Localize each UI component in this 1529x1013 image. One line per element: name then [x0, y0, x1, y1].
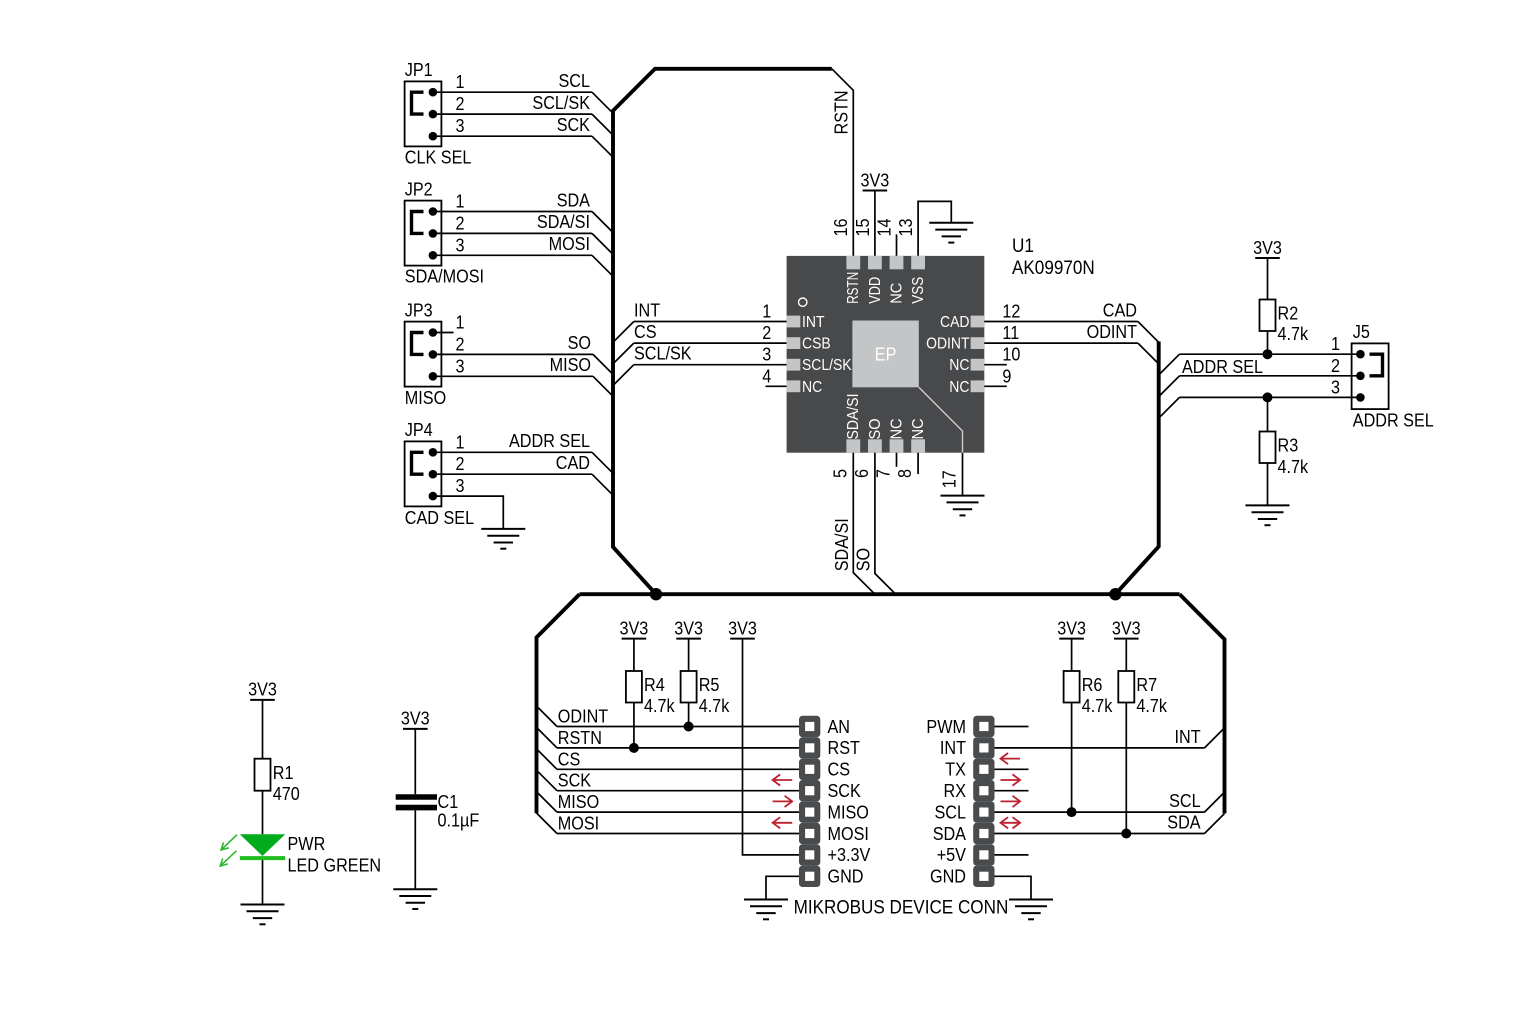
svg-text:3V3: 3V3: [248, 680, 277, 700]
svg-text:0.1µF: 0.1µF: [438, 810, 480, 830]
ground right header: [1009, 900, 1053, 920]
svg-text:9: 9: [1002, 366, 1011, 386]
svg-text:VDD: VDD: [867, 277, 884, 304]
svg-text:3: 3: [456, 116, 465, 136]
svg-text:3V3: 3V3: [674, 618, 703, 638]
U1 pin1 marker circle: [799, 298, 807, 306]
wire RSTN (top bus to U1 pin16): [832, 69, 854, 256]
ground C1: [393, 889, 437, 909]
node R2 junction: [1263, 349, 1273, 359]
wire CS row (bus to header CS): [537, 749, 558, 770]
wire ODINT (U1 pin11 to right bus): [984, 342, 1138, 344]
svg-text:+5V: +5V: [937, 845, 966, 865]
connector J5: [1352, 343, 1389, 409]
connector JP2: [405, 201, 442, 266]
svg-text:SO: SO: [867, 419, 884, 440]
svg-text:MOSI: MOSI: [828, 824, 869, 844]
svg-text:2: 2: [456, 334, 465, 354]
svg-text:SCK: SCK: [828, 781, 861, 801]
svg-text:R5: R5: [699, 675, 720, 695]
svg-text:4.7k: 4.7k: [1082, 696, 1113, 716]
svg-text:CSB: CSB: [802, 336, 831, 353]
svg-text:SCL/SK: SCL/SK: [532, 93, 590, 113]
wire JP1 pin3 SCK: [433, 135, 592, 137]
svg-text:VSS: VSS: [910, 277, 927, 304]
svg-text:3V3: 3V3: [1112, 618, 1141, 638]
svg-text:15: 15: [853, 219, 873, 237]
connector JP1: [405, 81, 442, 146]
wire ADDR SEL row1 (bus to J5 pin1): [1159, 354, 1180, 375]
svg-text:3V3: 3V3: [1057, 618, 1086, 638]
svg-text:CS: CS: [828, 760, 851, 780]
svg-text:NC: NC: [949, 379, 969, 396]
wire PWM stub: [995, 726, 1029, 728]
svg-text:16: 16: [831, 219, 851, 237]
red arrows right header: [1001, 753, 1021, 828]
ground pin17: [941, 496, 985, 516]
svg-text:SCL/SK: SCL/SK: [634, 344, 692, 364]
resistor R7: [1118, 671, 1134, 703]
svg-text:ODINT: ODINT: [926, 336, 970, 353]
svg-text:J5: J5: [1353, 322, 1370, 342]
resistor R2: [1260, 300, 1276, 332]
wire ADDR SEL row3 (bus to J5 pin3): [1159, 397, 1180, 418]
U1 EP pad: [852, 321, 918, 388]
svg-text:INT: INT: [940, 738, 966, 758]
wire JP3 pin3 MISO: [433, 375, 593, 377]
svg-text:SCL: SCL: [1169, 791, 1201, 811]
red arrow left SCK in: [773, 774, 793, 828]
svg-text:2: 2: [456, 94, 465, 114]
svg-text:MOSI: MOSI: [549, 234, 590, 254]
svg-text:NC: NC: [949, 357, 969, 374]
svg-text:3V3: 3V3: [861, 170, 890, 190]
svg-text:SO: SO: [854, 548, 874, 571]
svg-text:6: 6: [852, 469, 872, 478]
LED D1 PWR green: [240, 834, 285, 856]
wire U1 pin4 NC stub: [766, 385, 787, 387]
svg-text:AN: AN: [828, 717, 851, 737]
svg-text:2: 2: [762, 323, 771, 343]
svg-text:CAD SEL: CAD SEL: [405, 508, 474, 528]
connector JP3: [405, 322, 442, 387]
svg-text:GND: GND: [930, 867, 966, 887]
svg-text:R6: R6: [1082, 675, 1103, 695]
wire SCL/SK (bus to U1 pin3): [613, 365, 634, 386]
resistor R5: [681, 671, 697, 703]
svg-text:MIKROBUS DEVICE CONN: MIKROBUS DEVICE CONN: [794, 898, 1009, 919]
svg-text:1: 1: [456, 72, 465, 92]
svg-text:1: 1: [1331, 334, 1340, 354]
wire TX stub: [995, 768, 1029, 770]
svg-text:+3.3V: +3.3V: [828, 845, 871, 865]
svg-text:ADDR SEL: ADDR SEL: [1182, 357, 1263, 377]
svg-text:SCK: SCK: [557, 115, 590, 135]
svg-text:CAD: CAD: [940, 314, 970, 331]
node junction dot left: [650, 588, 662, 600]
svg-text:ADDR SEL: ADDR SEL: [509, 431, 590, 451]
svg-text:RSTN: RSTN: [832, 90, 852, 134]
node R7 junction on SDA row: [1121, 829, 1131, 839]
svg-text:RX: RX: [944, 781, 967, 801]
wire JP1 pin2 SCL/SK: [433, 113, 592, 115]
svg-text:CAD: CAD: [1103, 301, 1137, 321]
wire lower octagon top edge: [580, 592, 1180, 596]
ground left header: [744, 900, 788, 920]
svg-text:10: 10: [1002, 345, 1020, 365]
resistor R6: [1064, 671, 1080, 703]
wire INT (bus to U1 pin1): [613, 322, 634, 343]
svg-text:CLK SEL: CLK SEL: [405, 148, 472, 168]
svg-text:SDA: SDA: [933, 824, 966, 844]
wire U1 pin8 NC stub: [917, 453, 919, 474]
ground VSS: [929, 223, 973, 243]
svg-text:13: 13: [896, 219, 916, 237]
wire bus upper-left thick outline: [613, 69, 832, 594]
svg-text:INT: INT: [634, 301, 660, 321]
svg-text:PWM: PWM: [926, 717, 966, 737]
svg-text:SCL/SK: SCL/SK: [802, 357, 852, 374]
wire SDA row (header to right bus): [995, 833, 1205, 835]
connector left mikrobus header: [799, 716, 820, 887]
wire lower octagon right side: [1180, 594, 1225, 813]
svg-text:SDA/MOSI: SDA/MOSI: [405, 267, 484, 287]
svg-text:11: 11: [1002, 323, 1019, 343]
connector right mikrobus header: [973, 716, 994, 887]
ground LED: [241, 905, 285, 925]
svg-text:4.7k: 4.7k: [699, 696, 730, 716]
svg-text:RST: RST: [828, 738, 860, 758]
svg-text:MISO: MISO: [558, 792, 599, 812]
wire U1 pin14 NC stub: [896, 234, 898, 256]
wire EP pin17 to ground: [919, 387, 963, 452]
svg-text:JP1: JP1: [405, 60, 433, 80]
ground JP4: [481, 529, 525, 549]
svg-text:NC: NC: [888, 419, 905, 440]
svg-text:MISO: MISO: [828, 802, 869, 822]
svg-text:SCL: SCL: [559, 71, 591, 91]
svg-text:PWR: PWR: [288, 834, 326, 854]
svg-text:470: 470: [273, 784, 300, 804]
node R4 junction on RSTN row: [629, 743, 639, 753]
wire CAD (U1 pin12 to right bus): [984, 321, 1138, 323]
wire U1 pin9 NC stub: [984, 385, 1007, 387]
svg-text:CS: CS: [634, 322, 657, 342]
svg-text:2: 2: [456, 213, 465, 233]
svg-text:4.7k: 4.7k: [1278, 324, 1309, 344]
svg-text:4: 4: [762, 366, 771, 386]
svg-text:8: 8: [895, 469, 915, 478]
svg-text:3V3: 3V3: [401, 709, 430, 729]
wire RSTN row (bus to header RST): [537, 727, 558, 748]
svg-text:1: 1: [456, 192, 465, 212]
svg-text:MOSI: MOSI: [558, 814, 599, 834]
svg-text:R3: R3: [1278, 436, 1299, 456]
svg-text:R2: R2: [1278, 304, 1299, 324]
wire bus upper-right thick outline: [1115, 342, 1158, 595]
wire RX stub: [995, 790, 1029, 792]
resistor R1: [255, 759, 271, 791]
svg-text:5: 5: [830, 469, 850, 478]
wire INT row (header to right bus): [995, 747, 1205, 749]
svg-text:3: 3: [1331, 377, 1340, 397]
svg-text:ADDR SEL: ADDR SEL: [1353, 411, 1434, 431]
capacitor C1: [396, 794, 437, 800]
svg-text:JP2: JP2: [405, 179, 433, 199]
svg-text:3V3: 3V3: [1253, 238, 1282, 258]
svg-text:INT: INT: [802, 314, 825, 331]
wire SCL row (header to right bus): [995, 811, 1205, 813]
svg-text:SCL: SCL: [935, 802, 967, 822]
svg-text:CAD: CAD: [556, 453, 590, 473]
svg-text:AK09970N: AK09970N: [1012, 258, 1095, 279]
svg-text:LED GREEN: LED GREEN: [288, 856, 382, 876]
wire JP3 pin2 SO: [433, 353, 593, 355]
svg-text:SDA/SI: SDA/SI: [537, 212, 590, 232]
svg-text:MISO: MISO: [405, 388, 446, 408]
svg-text:2: 2: [456, 454, 465, 474]
resistor R3: [1263, 392, 1273, 402]
svg-text:U1: U1: [1012, 236, 1034, 257]
wire JP1 pin1 SCL: [433, 91, 592, 93]
wire JP4 pin1 ADDR SEL: [433, 451, 592, 453]
svg-text:ODINT: ODINT: [558, 707, 608, 727]
wire right header GND to ground: [995, 876, 1032, 899]
svg-text:SCK: SCK: [558, 771, 591, 791]
resistor R4: [626, 671, 642, 703]
svg-text:17: 17: [940, 470, 960, 488]
svg-text:R7: R7: [1136, 675, 1157, 695]
node R6 junction on SCL row: [1067, 807, 1077, 817]
wire MOSI row (bus to header MOSI): [537, 813, 558, 834]
wire U1 pin10 NC stub: [984, 364, 1007, 366]
svg-text:12: 12: [1002, 302, 1020, 322]
wire U1 pin7 NC stub: [896, 453, 898, 467]
wire +5V stub: [995, 854, 1029, 856]
wire left header GND to ground: [766, 876, 799, 899]
svg-text:SDA/SI: SDA/SI: [845, 394, 862, 440]
svg-text:NC: NC: [910, 419, 927, 440]
svg-text:1: 1: [762, 302, 771, 322]
wire U1 pin5 SDA/SI to lower bus: [853, 453, 875, 595]
svg-text:3: 3: [456, 476, 465, 496]
svg-text:14: 14: [874, 219, 894, 237]
svg-text:JP4: JP4: [405, 420, 433, 440]
svg-text:TX: TX: [945, 760, 966, 780]
wire CS (bus to U1 pin2): [613, 343, 634, 364]
svg-text:3: 3: [456, 235, 465, 255]
op-amp U1 AK09970N chip body: [787, 256, 985, 453]
svg-text:1: 1: [456, 313, 465, 333]
wire ADDR SEL row2 (bus to J5 pin2): [1159, 376, 1180, 397]
wire JP4 pin2 CAD: [433, 473, 592, 475]
wire JP4 pin3 to ground: [433, 496, 503, 529]
power 3V3 VDD (U1 pin15): [874, 191, 876, 256]
svg-text:INT: INT: [1175, 727, 1201, 747]
wire JP3 pin1 stub: [433, 332, 454, 334]
svg-text:4.7k: 4.7k: [1136, 696, 1167, 716]
svg-text:SO: SO: [568, 333, 591, 353]
svg-text:C1: C1: [438, 792, 459, 812]
svg-text:ODINT: ODINT: [1087, 322, 1137, 342]
wire JP2 pin3 MOSI: [433, 254, 592, 256]
svg-text:4.7k: 4.7k: [1278, 457, 1309, 477]
svg-text:RSTN: RSTN: [558, 728, 602, 748]
wire ODINT row (bus to header AN): [537, 706, 558, 727]
svg-text:2: 2: [1331, 356, 1340, 376]
svg-text:SDA: SDA: [1167, 813, 1200, 833]
svg-text:1: 1: [456, 432, 465, 452]
svg-text:3: 3: [762, 345, 771, 365]
wire JP2 pin1 SDA: [433, 211, 592, 213]
svg-text:3V3: 3V3: [620, 618, 649, 638]
svg-text:MISO: MISO: [550, 355, 591, 375]
wire U1 pin6 SO to lower bus: [875, 453, 896, 595]
connector JP4: [405, 441, 442, 506]
svg-text:R1: R1: [273, 763, 294, 783]
wire lower octagon left side: [537, 594, 580, 813]
node junction dot right: [1109, 588, 1121, 600]
wire VSS (U1 pin13) to ground: [918, 201, 951, 256]
ground R3: [1246, 505, 1290, 525]
svg-text:NC: NC: [802, 379, 822, 396]
wire MISO row (bus to header MISO): [537, 792, 558, 813]
wire JP2 pin2 SDA/SI: [433, 232, 592, 234]
svg-text:7: 7: [874, 469, 894, 478]
svg-text:GND: GND: [828, 867, 864, 887]
svg-text:3V3: 3V3: [728, 618, 757, 638]
svg-text:NC: NC: [888, 283, 905, 304]
svg-text:R4: R4: [644, 675, 665, 695]
svg-text:SDA/SI: SDA/SI: [832, 518, 852, 571]
svg-text:EP: EP: [875, 344, 897, 364]
svg-text:3: 3: [456, 356, 465, 376]
svg-text:JP3: JP3: [405, 300, 433, 320]
wire SCK row (bus to header SCK): [537, 770, 558, 791]
svg-text:SDA: SDA: [557, 190, 590, 210]
svg-text:RSTN: RSTN: [845, 272, 862, 304]
svg-text:CS: CS: [558, 749, 581, 769]
svg-text:4.7k: 4.7k: [644, 696, 675, 716]
node R5 junction on ODINT row: [684, 722, 694, 732]
